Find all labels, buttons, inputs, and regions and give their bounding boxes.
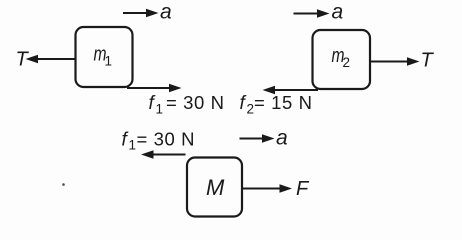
label m2 [332, 45, 351, 70]
svg-text:M: M [206, 175, 225, 200]
block m2 [313, 30, 371, 89]
svg-text:1: 1 [105, 54, 113, 69]
svg-text:1: 1 [129, 138, 137, 153]
friction arrow f1 (bottom right of m1) [127, 84, 182, 93]
label f1 = 30 N (under m1) [149, 92, 225, 117]
svg-text:2: 2 [247, 102, 255, 117]
label m1 [94, 44, 113, 69]
label f1 = 30 N (above M) [122, 129, 196, 153]
svg-text:= 30 N: = 30 N [137, 129, 196, 150]
svg-text:1: 1 [156, 102, 164, 117]
stray dot [62, 183, 65, 186]
svg-text:= 15 N: = 15 N [254, 92, 313, 113]
force arrow F (right of M) [242, 184, 292, 193]
svg-text:a: a [160, 1, 172, 24]
friction arrow f1 (top left of M, pointing left) [141, 150, 186, 159]
svg-text:a: a [276, 127, 288, 150]
acceleration arrow a (above m2) [294, 9, 330, 18]
tension arrow T (left of m1) [26, 55, 77, 64]
svg-text:T: T [421, 50, 435, 72]
svg-text:F: F [296, 178, 310, 200]
friction arrow f2 (bottom left of m2) [263, 86, 319, 95]
svg-text:T: T [16, 49, 30, 71]
tension arrow T (right of m2) [370, 57, 420, 66]
svg-text:a: a [332, 1, 344, 24]
block m1 [76, 27, 133, 87]
label f2 = 15 N (under m2) [240, 92, 313, 117]
svg-text:= 30 N: = 30 N [166, 92, 225, 113]
svg-text:2: 2 [343, 55, 351, 70]
acceleration arrow a (above m1) [123, 9, 159, 18]
block M [187, 158, 242, 217]
acceleration arrow a (above M) [240, 134, 275, 143]
